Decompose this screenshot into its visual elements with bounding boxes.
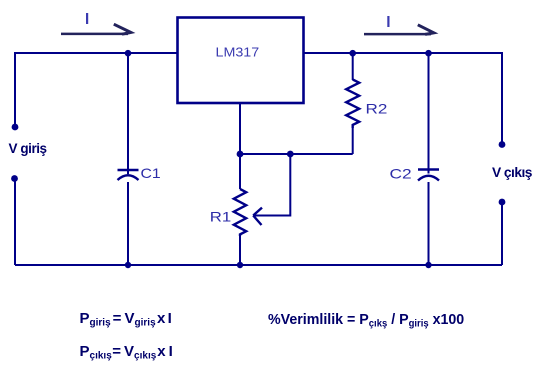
svg-text:C1: C1 [141,166,161,182]
svg-text:R1: R1 [210,210,231,225]
svg-text:R2: R2 [366,102,388,117]
svg-text:C2: C2 [390,167,412,182]
svg-text:LM317: LM317 [216,45,260,59]
